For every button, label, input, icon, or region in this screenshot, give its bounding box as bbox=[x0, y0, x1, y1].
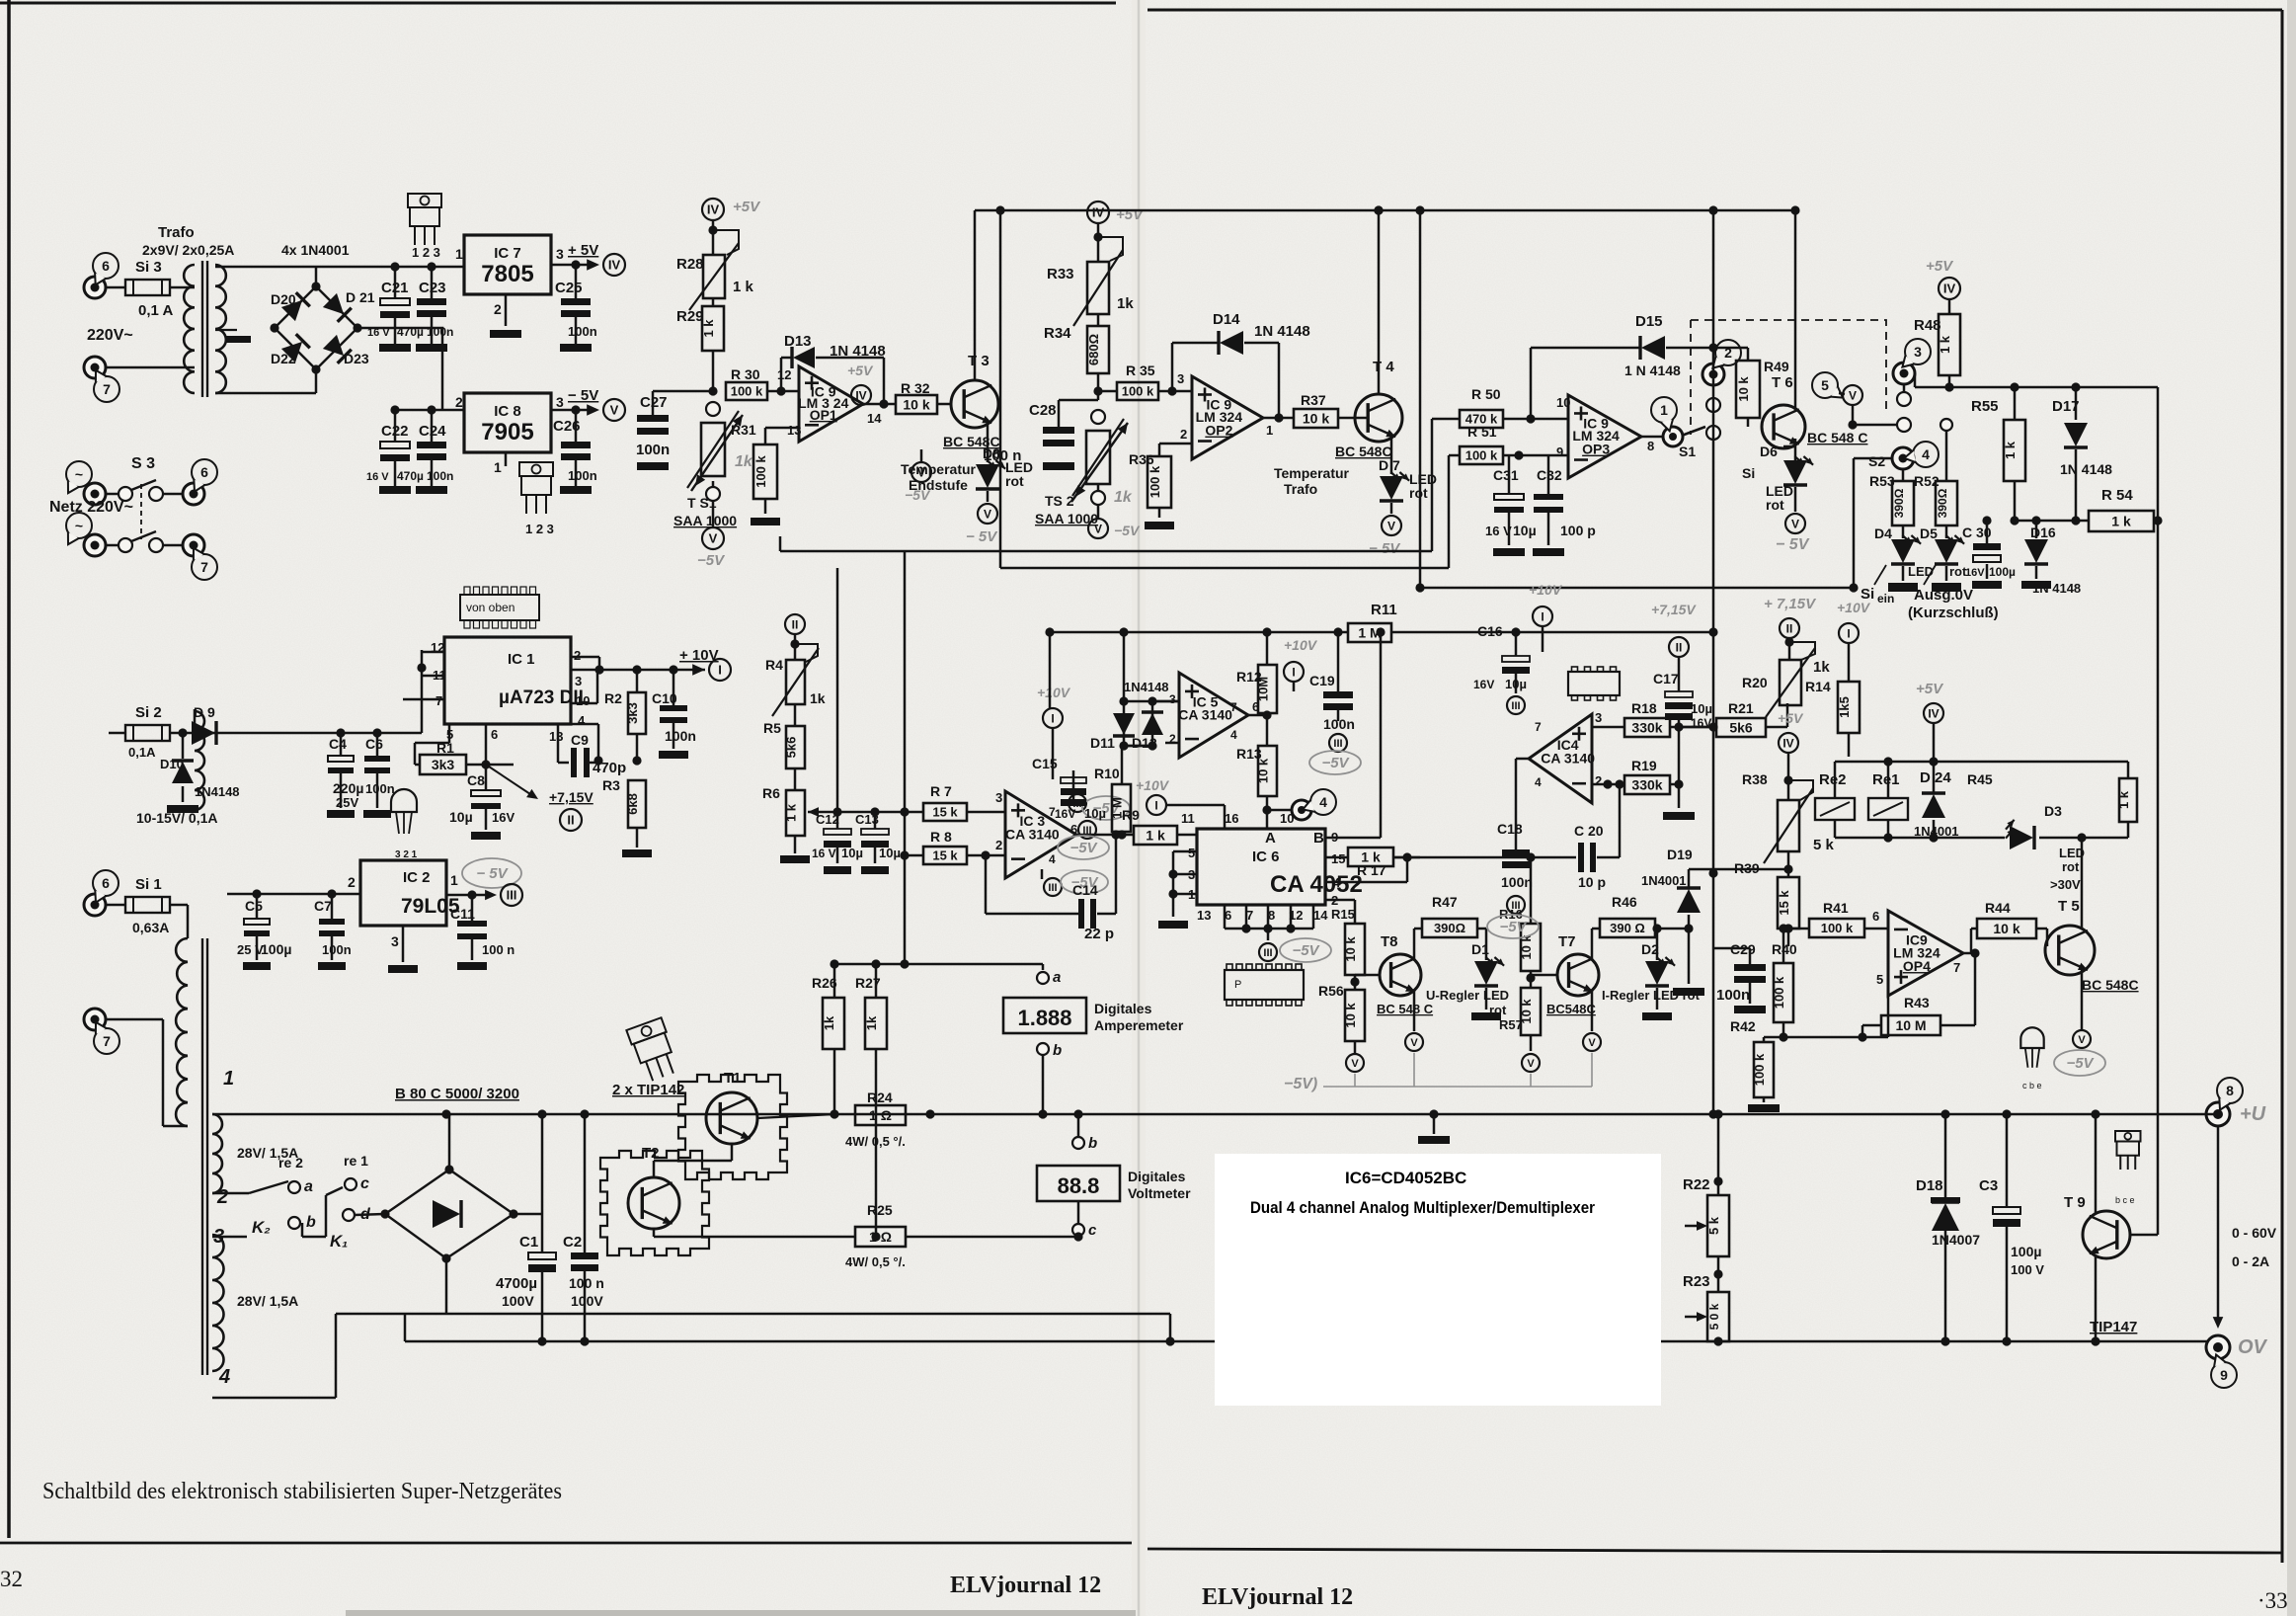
pencil -5V wire bbox=[1284, 1053, 1592, 1092]
circled III IC3 bbox=[1069, 794, 1130, 820]
svg-text:3: 3 bbox=[1595, 710, 1602, 725]
svg-text:+10V: +10V bbox=[1037, 685, 1071, 700]
IC4 pin labels bbox=[1535, 710, 1602, 789]
OP3 pin labels bbox=[1556, 395, 1654, 459]
2xTIP142 label bbox=[612, 1082, 684, 1098]
svg-text:Digitales: Digitales bbox=[1094, 1001, 1152, 1016]
svg-text:16 V: 16 V bbox=[367, 327, 390, 339]
svg-text:V: V bbox=[1387, 519, 1395, 532]
capacitor C3 bbox=[1979, 1114, 2044, 1341]
+5V arrow label bbox=[568, 242, 625, 276]
svg-text:V: V bbox=[984, 507, 991, 521]
svg-text:6: 6 bbox=[200, 464, 208, 480]
svg-text:I: I bbox=[1292, 665, 1295, 679]
svg-text:R 51: R 51 bbox=[1467, 424, 1497, 440]
svg-text:1k: 1k bbox=[822, 1015, 836, 1030]
IC8 7905 bbox=[455, 393, 564, 452]
svg-text:D13: D13 bbox=[784, 333, 812, 350]
svg-text:R6: R6 bbox=[762, 785, 780, 801]
D15 loop wires bbox=[1531, 343, 1718, 419]
svg-text:5k6: 5k6 bbox=[1729, 720, 1753, 736]
capacitor C7 bbox=[314, 894, 352, 970]
svg-text:C 20: C 20 bbox=[1574, 823, 1604, 839]
svg-text:9: 9 bbox=[2220, 1367, 2228, 1383]
relay contact K2 bbox=[212, 1214, 316, 1237]
svg-text:R21: R21 bbox=[1728, 700, 1754, 716]
labels Ausg 0V bbox=[1908, 587, 1999, 621]
svg-text:100n: 100n bbox=[568, 324, 597, 339]
bridge rectifier D20-D23 outline bbox=[275, 286, 357, 369]
svg-text:32: 32 bbox=[0, 1567, 23, 1591]
svg-text:+5V: +5V bbox=[847, 363, 874, 378]
svg-text:Dual 4 channel Analog Multiple: Dual 4 channel Analog Multiplexer/Demult… bbox=[1250, 1198, 1595, 1217]
svg-text:0 - 2A: 0 - 2A bbox=[2232, 1253, 2269, 1269]
svg-text:7: 7 bbox=[435, 693, 442, 708]
svg-text:3: 3 bbox=[391, 933, 399, 949]
svg-text:R 35: R 35 bbox=[1126, 363, 1155, 378]
svg-text:15 k: 15 k bbox=[1777, 890, 1791, 916]
svg-text:100µ: 100µ bbox=[2011, 1244, 2041, 1259]
svg-text:OV: OV bbox=[2238, 1336, 2268, 1358]
svg-text:5 k: 5 k bbox=[1706, 1216, 1721, 1235]
svg-text:− 5V: − 5V bbox=[1776, 536, 1810, 553]
svg-text:100 k: 100 k bbox=[1148, 465, 1162, 498]
circled II R4 bbox=[785, 614, 805, 634]
svg-text:R38: R38 bbox=[1742, 771, 1768, 787]
bridge rectifier B80 outline bbox=[380, 1165, 517, 1262]
svg-text:1 k: 1 k bbox=[733, 279, 754, 295]
pot wiper circle TS1 bbox=[706, 402, 720, 416]
svg-text:C19: C19 bbox=[1309, 673, 1335, 688]
pot R23 bbox=[1683, 1256, 1729, 1341]
IC6 bottom pin wires bbox=[1225, 905, 1313, 933]
svg-text:4: 4 bbox=[218, 1366, 230, 1388]
center tap ground bbox=[215, 330, 251, 343]
resistor R29 bbox=[676, 298, 724, 391]
resistor R43 bbox=[1858, 948, 1979, 1041]
resistor R35 bbox=[1098, 363, 1192, 400]
svg-text:−5V: −5V bbox=[1069, 840, 1098, 856]
footer ELVjournal right bbox=[1202, 1584, 1353, 1610]
wire into IC2 bbox=[227, 874, 360, 899]
svg-text:− 5V: − 5V bbox=[1369, 540, 1401, 557]
svg-text:C1: C1 bbox=[519, 1234, 538, 1251]
resistor R56 bbox=[1318, 975, 1365, 1053]
IC6 right pins bbox=[1331, 830, 1345, 908]
svg-text:10: 10 bbox=[576, 693, 590, 708]
svg-text:2x9V/ 2x0,25A: 2x9V/ 2x0,25A bbox=[142, 242, 234, 258]
svg-text:R5: R5 bbox=[763, 720, 781, 736]
svg-text:+10V: +10V bbox=[1136, 777, 1170, 793]
svg-text:390 Ω: 390 Ω bbox=[1610, 921, 1645, 935]
svg-text:100 n: 100 n bbox=[984, 447, 1021, 464]
circled I top bbox=[1529, 582, 1563, 652]
svg-text:1 2 3: 1 2 3 bbox=[412, 245, 440, 260]
svg-text:100V: 100V bbox=[502, 1293, 534, 1309]
svg-text:1: 1 bbox=[450, 872, 458, 888]
svg-text:R2: R2 bbox=[604, 690, 622, 706]
svg-text:+ 7,15V: + 7,15V bbox=[1764, 596, 1817, 612]
svg-text:II: II bbox=[567, 813, 574, 828]
svg-text:IV: IV bbox=[707, 202, 720, 217]
svg-text:+5V: +5V bbox=[1778, 710, 1804, 726]
wire R13 to IC6 pin10 bbox=[1267, 811, 1294, 829]
top frame border bbox=[0, 3, 2282, 10]
label +10V arrow bbox=[679, 647, 731, 681]
LED D4 bbox=[1874, 525, 1921, 592]
transistor T4 bbox=[1335, 359, 1402, 459]
svg-text:390Ω: 390Ω bbox=[1936, 488, 1949, 518]
svg-text:1k: 1k bbox=[735, 453, 753, 470]
svg-text:330k: 330k bbox=[1631, 720, 1662, 736]
resistor R47 bbox=[1422, 894, 1486, 937]
svg-text:R20: R20 bbox=[1742, 675, 1768, 690]
TS1 bottom circle bbox=[706, 481, 720, 501]
bridge B80 right wire bbox=[541, 1114, 544, 1214]
svg-text:R49: R49 bbox=[1764, 359, 1789, 374]
svg-text:R22: R22 bbox=[1683, 1176, 1710, 1193]
IC1 pin labels left bbox=[431, 640, 446, 708]
svg-text:V: V bbox=[1588, 1037, 1596, 1049]
svg-text:D5: D5 bbox=[1920, 525, 1938, 541]
svg-text:10µ: 10µ bbox=[1691, 701, 1712, 716]
-5V arrow label bbox=[568, 387, 625, 421]
wire term7-trafo bbox=[106, 366, 195, 369]
labels U-Regler bbox=[1426, 988, 1523, 1032]
svg-text:25 V: 25 V bbox=[237, 942, 264, 957]
transformer lower windings bbox=[176, 938, 223, 1375]
TS2 labels bbox=[1035, 493, 1098, 526]
IC7 pin2 ground bbox=[490, 294, 521, 338]
resistor R6 bbox=[762, 785, 810, 863]
wire term6-fuse bbox=[106, 286, 125, 289]
transformer T upper label bbox=[142, 224, 234, 258]
digital ammeter display bbox=[1003, 998, 1184, 1033]
svg-text:13: 13 bbox=[1197, 908, 1211, 923]
svg-text:10µ: 10µ bbox=[879, 846, 901, 860]
capacitor C24 bbox=[416, 410, 453, 494]
relay rail top bbox=[1835, 757, 2128, 798]
svg-text:C8: C8 bbox=[467, 772, 485, 788]
TO92 package T5 bbox=[2020, 1027, 2043, 1091]
svg-text:R 50: R 50 bbox=[1471, 386, 1501, 402]
capacitor C22 bbox=[366, 410, 424, 494]
svg-text:220µ: 220µ bbox=[333, 780, 363, 796]
svg-text:15 k: 15 k bbox=[932, 848, 958, 863]
svg-text:Si 2: Si 2 bbox=[135, 704, 162, 721]
svg-text:D6: D6 bbox=[1760, 444, 1778, 459]
svg-text:16 V: 16 V bbox=[812, 847, 836, 860]
svg-text:1 k: 1 k bbox=[2111, 514, 2131, 529]
svg-text:1k: 1k bbox=[1117, 295, 1134, 312]
svg-text:LED: LED bbox=[1483, 988, 1509, 1003]
svg-text:14: 14 bbox=[867, 411, 882, 426]
svg-text:100 k: 100 k bbox=[731, 384, 763, 399]
wire S2 to terminal3 bbox=[1903, 385, 1906, 393]
svg-text:+10V: +10V bbox=[1284, 637, 1318, 653]
svg-text:C2: C2 bbox=[563, 1234, 582, 1251]
circled V OP1 bbox=[905, 449, 931, 503]
svg-text:OP2: OP2 bbox=[1205, 423, 1232, 439]
svg-text:3 2 1: 3 2 1 bbox=[395, 849, 418, 860]
resistor R17 1k bbox=[1325, 848, 1420, 878]
pot R20 bbox=[1742, 637, 1830, 717]
svg-text:2: 2 bbox=[216, 1186, 228, 1208]
svg-text:CA 3140: CA 3140 bbox=[1541, 751, 1595, 767]
svg-text:R34: R34 bbox=[1044, 325, 1071, 342]
diode D16 bbox=[2021, 516, 2081, 596]
svg-text:680Ω: 680Ω bbox=[1086, 334, 1101, 365]
fuse Si2 bbox=[125, 704, 170, 760]
svg-text:BC548C: BC548C bbox=[1546, 1002, 1596, 1016]
circled III C18 bbox=[1487, 896, 1539, 938]
svg-text:D4: D4 bbox=[1874, 525, 1892, 541]
capacitor C2 bbox=[563, 1114, 604, 1341]
resistor R30 bbox=[726, 366, 799, 400]
transformer upper primary coil bbox=[184, 265, 195, 393]
label 220V~ bbox=[87, 327, 133, 344]
resistor R13 bbox=[1236, 715, 1277, 816]
capacitor C17 bbox=[1653, 658, 1712, 820]
diode D10 bbox=[160, 733, 240, 813]
svg-text:1: 1 bbox=[1660, 402, 1668, 418]
svg-text:100n: 100n bbox=[665, 728, 696, 744]
capacitor C15 bbox=[1032, 729, 1106, 821]
svg-text:100 V: 100 V bbox=[2011, 1262, 2044, 1277]
svg-text:8: 8 bbox=[1647, 439, 1654, 453]
circled V TS1 bbox=[697, 501, 726, 569]
capacitor C13 bbox=[855, 812, 901, 874]
thermistor TS1 bbox=[687, 411, 753, 491]
svg-text:100n: 100n bbox=[1716, 987, 1750, 1004]
svg-text:~: ~ bbox=[75, 518, 83, 533]
capacitor C25 bbox=[555, 265, 597, 352]
svg-text:10 p: 10 p bbox=[1578, 874, 1606, 890]
pot R33 bbox=[1047, 250, 1134, 326]
wire terminal3 right bbox=[1915, 373, 2081, 392]
svg-text:c: c bbox=[1088, 1222, 1097, 1239]
svg-text:100 k: 100 k bbox=[1752, 1053, 1767, 1086]
svg-text:BC 548C: BC 548C bbox=[2082, 977, 2139, 993]
op-amp U-IC5 bbox=[1178, 673, 1248, 758]
long wire R54 down bbox=[2076, 387, 2163, 1235]
svg-text:II: II bbox=[792, 617, 799, 631]
svg-text:Schaltbild des elektronisch st: Schaltbild des elektronisch stabilisiert… bbox=[42, 1479, 562, 1504]
T8 collector to R47 bbox=[1414, 929, 1422, 960]
pot R28 bbox=[676, 243, 754, 310]
mid long wire A left jog bbox=[779, 536, 782, 551]
wire D3 to T5 collector bbox=[0, 0, 1, 1]
svg-text:R33: R33 bbox=[1047, 266, 1074, 283]
circled III IC3 bottom bbox=[1042, 869, 1108, 896]
svg-text:+7,15V: +7,15V bbox=[549, 789, 594, 805]
terminal +U bbox=[2206, 1078, 2266, 1126]
winding tap numbers bbox=[213, 1068, 234, 1388]
circled V D8 bbox=[966, 491, 998, 545]
svg-text:III: III bbox=[507, 888, 517, 903]
D14 loop wires bbox=[1172, 343, 1284, 423]
dashed select box bbox=[1691, 320, 1886, 435]
wire IV to R33 bbox=[1093, 223, 1123, 262]
svg-text:3: 3 bbox=[1177, 371, 1184, 386]
capacitor C26 bbox=[553, 410, 597, 494]
terminal 1 bullseye bbox=[1651, 397, 1683, 446]
digital voltmeter display bbox=[1037, 1166, 1191, 1201]
svg-text:III: III bbox=[1048, 882, 1057, 894]
svg-text:rot: rot bbox=[1409, 485, 1428, 501]
svg-text:ELVjournal 12: ELVjournal 12 bbox=[1202, 1584, 1353, 1610]
svg-text:1N 4148: 1N 4148 bbox=[2032, 581, 2081, 596]
meter top rail bbox=[830, 959, 1043, 968]
svg-text:330k: 330k bbox=[1631, 777, 1662, 793]
OP2 pin labels bbox=[1180, 423, 1273, 442]
svg-text:220V~: 220V~ bbox=[87, 327, 133, 344]
op-amp U-IC3 bbox=[1005, 791, 1076, 878]
svg-text:T 6: T 6 bbox=[1772, 374, 1793, 391]
diode D21 bbox=[323, 289, 375, 322]
svg-text:3: 3 bbox=[575, 674, 582, 688]
svg-text:c: c bbox=[360, 1175, 369, 1192]
voltmeter terminal c bbox=[1072, 1201, 1097, 1242]
resistor R16 bbox=[1499, 852, 1541, 971]
svg-text:4700µ: 4700µ bbox=[496, 1275, 537, 1292]
svg-text:8: 8 bbox=[2226, 1083, 2234, 1098]
svg-text:15: 15 bbox=[1331, 851, 1345, 866]
svg-text:OP4: OP4 bbox=[1903, 958, 1931, 974]
svg-text:−5V: −5V bbox=[1321, 755, 1350, 771]
footer ELVjournal left bbox=[950, 1573, 1101, 1598]
TS2 bottom circle bbox=[1091, 484, 1105, 505]
resistor R8 bbox=[905, 829, 1005, 864]
diode D13 bbox=[784, 333, 886, 368]
diode D9 bbox=[170, 704, 422, 745]
circled V T7e bbox=[1522, 1054, 1540, 1072]
svg-text:D19: D19 bbox=[1667, 847, 1693, 862]
svg-text:ein: ein bbox=[1877, 592, 1894, 606]
capacitor C8 bbox=[449, 765, 515, 840]
terminal 6 top bbox=[84, 253, 119, 298]
svg-text:4: 4 bbox=[1319, 794, 1327, 810]
svg-text:16V: 16V bbox=[492, 810, 515, 825]
circled V TS2 bbox=[1088, 505, 1141, 538]
svg-text:(Kurzschluß): (Kurzschluß) bbox=[1908, 605, 1999, 621]
svg-text:I-Regler: I-Regler bbox=[1602, 988, 1649, 1003]
svg-text:10 k: 10 k bbox=[1993, 921, 2019, 936]
mid long wire B bbox=[1000, 567, 1449, 570]
wire B to R51 bbox=[1449, 455, 1460, 568]
resistor R31 bbox=[731, 422, 780, 525]
svg-text:IC6=CD4052BC: IC6=CD4052BC bbox=[1345, 1169, 1466, 1187]
circled V D7 bbox=[1369, 503, 1401, 557]
LED D7 bbox=[1379, 437, 1437, 501]
svg-text:16V: 16V bbox=[1055, 807, 1075, 821]
svg-text:+5V: +5V bbox=[1116, 206, 1145, 223]
svg-text:−5V: −5V bbox=[2066, 1055, 2095, 1072]
resistor R52 bbox=[1914, 419, 1957, 525]
svg-text:R37: R37 bbox=[1301, 392, 1326, 408]
svg-text:R36: R36 bbox=[1129, 451, 1154, 467]
resistor R53 bbox=[1869, 469, 1914, 525]
circled II C17 bbox=[1651, 602, 1697, 657]
svg-text:T7: T7 bbox=[1558, 933, 1576, 950]
LED D8 bbox=[976, 423, 1033, 489]
IC1 pin labels right bbox=[549, 648, 590, 744]
resistor R9 bbox=[1134, 811, 1197, 845]
svg-text:7: 7 bbox=[103, 381, 111, 397]
op-amp U-OP2 bbox=[1192, 376, 1263, 459]
svg-text:von oben: von oben bbox=[466, 601, 515, 614]
svg-text:2: 2 bbox=[455, 394, 463, 410]
resistor R57 bbox=[1519, 971, 1541, 1051]
svg-text:100 n: 100 n bbox=[569, 1275, 604, 1291]
svg-text:CA 4052: CA 4052 bbox=[1270, 871, 1363, 898]
+10V circled I C15 bbox=[1037, 685, 1071, 728]
svg-text:a: a bbox=[1053, 969, 1061, 986]
OP1 minus input wire bbox=[765, 428, 799, 444]
wire IC7 out bbox=[551, 260, 593, 269]
wire rail to +U bbox=[2207, 1113, 2218, 1116]
svg-text:V: V bbox=[1527, 1058, 1535, 1070]
svg-text:T2: T2 bbox=[642, 1145, 660, 1162]
IC6 bottom pins bbox=[1197, 908, 1328, 923]
svg-text:R 7: R 7 bbox=[930, 783, 952, 799]
svg-text:LED: LED bbox=[2059, 846, 2085, 860]
wire terminal4 left bbox=[1849, 458, 1892, 593]
svg-text:IV: IV bbox=[855, 388, 866, 402]
svg-text:1.888: 1.888 bbox=[1017, 1006, 1071, 1030]
svg-text:10 k: 10 k bbox=[1736, 376, 1751, 402]
svg-text:b: b bbox=[1088, 1135, 1097, 1152]
DIP16 package drawing bbox=[1225, 964, 1304, 1006]
svg-text:BC 548 C: BC 548 C bbox=[1807, 430, 1867, 445]
svg-text:R18: R18 bbox=[1631, 700, 1657, 716]
wire secondary top bbox=[215, 266, 316, 269]
svg-text:R28: R28 bbox=[676, 256, 704, 273]
D13 loop wires bbox=[781, 358, 889, 409]
svg-text:R46: R46 bbox=[1612, 894, 1637, 910]
terminal ~ upper bbox=[66, 461, 106, 505]
svg-text:R31: R31 bbox=[731, 422, 756, 438]
IC5 + input wire bbox=[1152, 700, 1179, 703]
svg-text:100 k: 100 k bbox=[1821, 921, 1854, 935]
svg-text:470µ: 470µ bbox=[397, 469, 424, 483]
svg-text:C28: C28 bbox=[1029, 402, 1057, 419]
capacitor C31 bbox=[1485, 455, 1537, 556]
svg-text:+10V: +10V bbox=[1837, 600, 1871, 615]
terminal 7 top bbox=[84, 357, 119, 402]
capacitor C30 bbox=[1962, 516, 2016, 589]
diode D24 bbox=[1914, 762, 1959, 839]
resistor R24 bbox=[845, 1090, 906, 1149]
svg-text:−5V): −5V) bbox=[1284, 1076, 1317, 1092]
op-amp U-IC4 bbox=[1529, 714, 1595, 803]
svg-text:+10V: +10V bbox=[1529, 582, 1563, 598]
svg-text:c b e: c b e bbox=[2022, 1081, 2042, 1091]
svg-text:C3: C3 bbox=[1979, 1177, 1998, 1194]
mid vertical x848 bbox=[836, 568, 839, 812]
svg-text:I: I bbox=[1051, 711, 1054, 725]
resistor R19 bbox=[1592, 758, 1684, 794]
terminal 6 right bbox=[183, 459, 217, 505]
svg-text:+5V: +5V bbox=[1926, 258, 1954, 275]
svg-text:V: V bbox=[1094, 522, 1102, 535]
svg-text:III: III bbox=[1511, 900, 1520, 912]
svg-text:K₂: K₂ bbox=[252, 1218, 271, 1237]
capacitor C5 bbox=[237, 894, 291, 970]
svg-text:C5: C5 bbox=[245, 898, 263, 914]
svg-text:IC 2: IC 2 bbox=[403, 869, 431, 886]
T4 collector wire bbox=[1374, 205, 1383, 395]
